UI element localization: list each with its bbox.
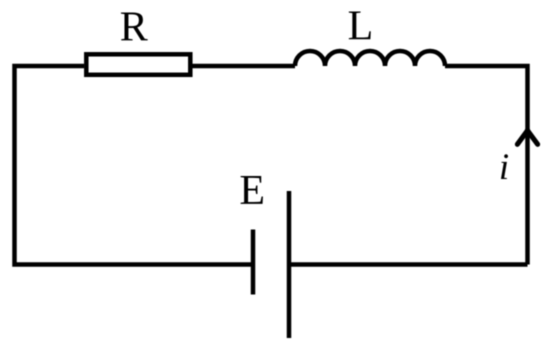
svg-text:R: R xyxy=(120,5,148,51)
svg-text:i: i xyxy=(499,147,509,188)
svg-text:E: E xyxy=(239,168,265,214)
svg-text:L: L xyxy=(348,3,374,49)
